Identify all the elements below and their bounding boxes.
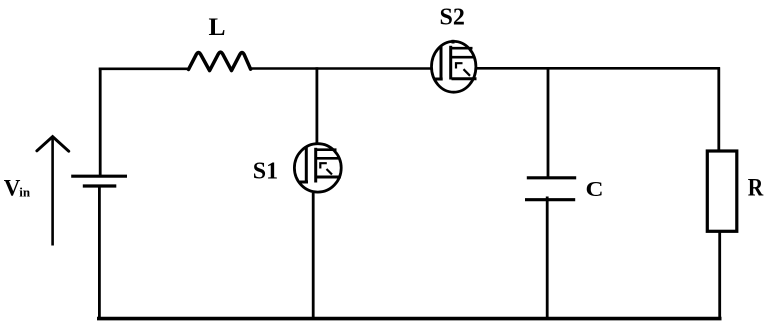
wire: C branch top (rail to capacitor) (547, 67, 550, 178)
wire: left branch bottom (battery to bottom rail) (98, 186, 101, 319)
wire: bottom rail (ground return) (97, 317, 722, 321)
wire: left branch top (rail to battery) (99, 68, 102, 177)
wire: top rail right segment (S2 to top-right corner) (477, 67, 720, 70)
svg-text:S2: S2 (440, 5, 465, 31)
wire: S1 source to bottom rail (312, 193, 315, 319)
transistor S2 (MOSFET in circle, series in top rail) (432, 40, 477, 92)
capacitor C bottom plate (525, 198, 575, 201)
node: junction of top rail and S1 drain (315, 67, 318, 143)
capacitor C top plate (527, 176, 576, 179)
inductor L (189, 52, 251, 71)
battery Vin bottom plate (83, 184, 117, 187)
transistor S1 (MOSFET in circle) (294, 144, 341, 192)
svg-text:L: L (209, 12, 226, 41)
svg-text:S1: S1 (253, 158, 278, 184)
resistor R (rectangle) (707, 151, 737, 231)
wire: top rail left segment (source top to inductor) (99, 68, 189, 71)
svg-text:C: C (586, 177, 604, 201)
svg-text:R: R (748, 174, 764, 201)
battery Vin top plate (71, 175, 127, 178)
wire: R to bottom rail (718, 231, 721, 318)
wire: C branch bottom (capacitor to bottom rail) (546, 197, 549, 319)
svg-text:Vin: Vin (4, 176, 31, 201)
arrow: Vin direction (37, 137, 69, 246)
wire: top rail middle segment (inductor to S2) (251, 67, 431, 70)
wire: R branch top (top-right corner down to resistor) (717, 67, 720, 151)
